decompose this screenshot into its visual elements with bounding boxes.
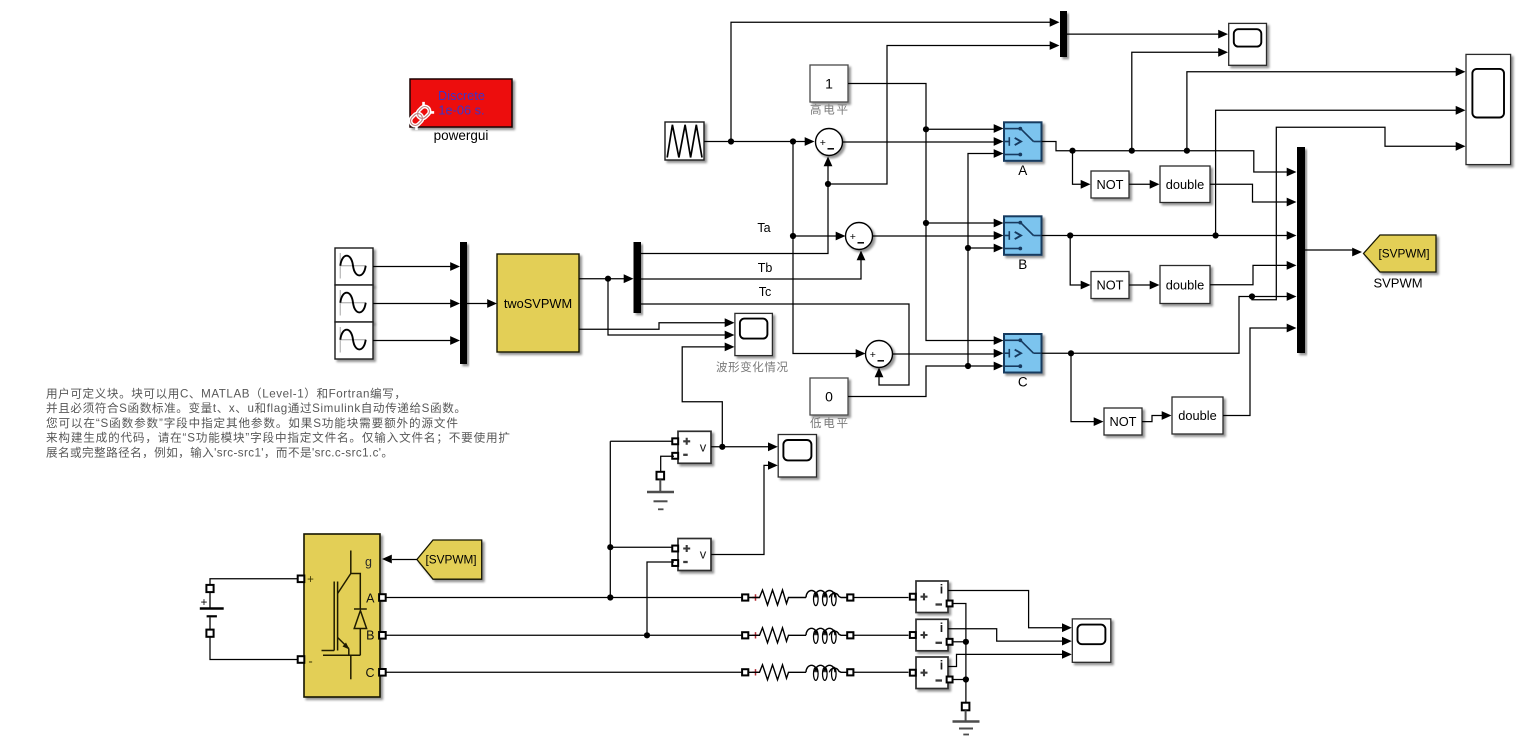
junction twoSVPWM out1 tap: [605, 276, 611, 282]
port i+: [910, 632, 916, 638]
port ground1: [657, 472, 665, 480]
svg-text:NOT: NOT: [1109, 414, 1136, 429]
sum block Sum1 (triangle - Ta): [816, 129, 843, 156]
sine wave source 1: [335, 248, 373, 285]
triangle wave icon: [667, 125, 702, 158]
wire RL3 to I3: [854, 671, 909, 673]
wire V1+ riser: [609, 441, 611, 597]
wire double3 to Mux2 in6: [1223, 328, 1288, 416]
wire mux1 to twoSVPWM: [467, 303, 489, 305]
wire phase B: [386, 634, 742, 636]
wire const0 to Switch B in3: [968, 248, 995, 366]
wire battery- to inverter-: [210, 637, 298, 660]
svg-text:Tb: Tb: [758, 261, 773, 275]
svg-text:powergui: powergui: [434, 128, 489, 143]
port RL2 right: [847, 632, 853, 638]
current measurement block I2: [916, 619, 948, 651]
svg-text:+: +: [201, 597, 208, 609]
junction high level B: [923, 220, 929, 226]
series RL branch 2: [752, 632, 758, 638]
wire Switch B out to Mux2 in3: [1042, 235, 1289, 237]
wire double2 to Mux2 in4: [1210, 265, 1288, 284]
junction I3- node: [963, 676, 969, 682]
wire Sum2 to Switch B in2: [873, 235, 996, 237]
svg-text:低电平: 低电平: [810, 417, 848, 430]
junction riser to V2+: [607, 544, 613, 550]
wire to NOT1: [1073, 151, 1083, 185]
port inverter +: [298, 576, 305, 583]
wire I3 out to scope5 in3: [948, 654, 1064, 666]
inverter IGBT-diode icon: [322, 551, 367, 680]
wire tap to scope Bo Xing in2: [608, 279, 726, 335]
switch block A: [1004, 122, 1042, 161]
svg-text:波形变化情况: 波形变化情况: [716, 360, 789, 374]
junction low level C: [965, 363, 971, 369]
junction triangle tap B: [790, 138, 796, 144]
wire twoSVPWM out2 to scope in1: [579, 323, 726, 330]
wire V2- down to phase B: [647, 562, 674, 635]
ground symbol 1: [647, 480, 674, 510]
ground symbol 2: [953, 710, 980, 734]
port v-: [672, 453, 678, 459]
wire A out to scope1 in2: [1132, 52, 1220, 150]
logic NOT block 3: [1104, 408, 1142, 435]
demux Demux1 (Ta Tb Tc): [634, 242, 642, 313]
arrow scope3 in3: [725, 343, 735, 352]
wire I1- down: [953, 604, 966, 704]
wire demux out3 Tc to Sum3: [641, 304, 909, 385]
wire sine3 to input mux: [373, 340, 452, 342]
svg-text:A: A: [366, 592, 375, 606]
wire I1 out to scope5 in1: [948, 591, 1064, 628]
junction Ta line: [825, 181, 831, 187]
from tag [SVPWM] (gate): [417, 540, 482, 579]
svg-text:[SVPWM]: [SVPWM]: [1378, 247, 1429, 261]
inverter emitter arrow: [343, 643, 350, 650]
wire NOT1 to double1: [1129, 183, 1151, 185]
svg-text:twoSVPWM: twoSVPWM: [504, 296, 572, 311]
sine wave source 3: [335, 322, 373, 359]
switch block B: [1004, 216, 1042, 255]
junction low level B: [965, 245, 971, 251]
wire Sum1 to Switch A in2: [843, 141, 996, 143]
mux Mux1 (3 sine inputs): [460, 242, 467, 364]
scope block 4 (voltages): [778, 435, 816, 478]
sum block Sum2 (triangle - Tb): [846, 223, 873, 250]
junction C out to NOT3: [1068, 350, 1074, 356]
wire A out to scope2 in1: [1187, 72, 1457, 151]
S-function block twoSVPWM: [497, 254, 579, 352]
svg-text:Ta: Ta: [757, 221, 770, 235]
svg-text:您可以在“S函数参数”字段中指定其他参数。如果S功能块需要额: 您可以在“S函数参数”字段中指定其他参数。如果S功能块需要额外的源文件: [46, 416, 458, 430]
svg-text:1e-06 s.: 1e-06 s.: [438, 103, 484, 118]
wire V2 out to scope4 in2: [711, 465, 769, 554]
svg-text:展名或完整路径名，例如，输入'src-src1'，而不是's: 展名或完整路径名，例如，输入'src-src1'，而不是'src.c-src1.…: [46, 446, 393, 460]
wire Switch C out to Mux2 in5: [1042, 297, 1289, 354]
wire const1 to Switch C in1: [926, 223, 995, 341]
wire Sum3 to Switch C in2: [893, 353, 996, 355]
svg-text:i: i: [940, 583, 943, 597]
scope block 2 (3-in): [1466, 54, 1511, 164]
logic NOT block 1: [1091, 171, 1129, 198]
current measurement block I1: [916, 581, 948, 613]
junction A out to scope1: [1129, 148, 1135, 154]
sine wave source 2: [335, 285, 373, 322]
wire demux out1 up to Sum1: [641, 165, 828, 254]
svg-text:i: i: [940, 621, 943, 635]
wire to NOT3: [1071, 353, 1095, 421]
junction phase B tap: [644, 632, 650, 638]
wire NOT3 to double3: [1142, 416, 1163, 422]
wire constant0 to Switch C in3: [848, 366, 995, 397]
svg-text:+: +: [307, 574, 314, 586]
port RL1 right: [847, 594, 853, 600]
svg-text:[SVPWM]: [SVPWM]: [425, 553, 476, 567]
port inverter C: [379, 669, 386, 676]
svg-text:NOT: NOT: [1096, 278, 1123, 293]
data type conversion double 2: [1160, 266, 1210, 304]
sum block Sum3 (triangle - Tc): [866, 341, 893, 368]
wire sine2 to input mux: [373, 303, 452, 305]
scope block 5 (currents): [1072, 619, 1111, 662]
wire RL1 to I1: [854, 597, 909, 599]
port i-: [947, 601, 953, 607]
mux scope1 inputs: [1060, 11, 1067, 57]
wire V1- to ground1: [661, 456, 674, 471]
port RL3 right: [847, 669, 853, 675]
wire phase A: [386, 597, 742, 599]
svg-text:+: +: [820, 137, 826, 149]
wire NOT2 to double2: [1129, 284, 1151, 286]
series RL branch 1: [752, 594, 758, 600]
svg-text:1: 1: [825, 76, 833, 92]
wire I3- to node: [953, 679, 966, 681]
port i-: [947, 677, 953, 683]
wire C out to scope2 in3: [1252, 127, 1457, 299]
junction A out to NOT1: [1069, 148, 1075, 154]
port i+: [910, 594, 916, 600]
svg-text:+: +: [870, 349, 876, 361]
svg-text:Discrete: Discrete: [438, 88, 485, 103]
universal bridge inverter block: [304, 534, 380, 697]
wire triangle to scope mux in1: [731, 22, 1051, 141]
junction V1 out: [719, 444, 725, 450]
wire const0 to Switch A in3: [968, 154, 995, 249]
wire B out to scope2 in2: [1216, 110, 1457, 235]
port inverter B: [379, 632, 386, 639]
current measurement block I3: [916, 657, 948, 689]
svg-text:C: C: [365, 666, 374, 680]
svg-text:B: B: [366, 629, 374, 643]
wire riser to V2+: [610, 546, 673, 548]
scope block 1 (2-in): [1229, 23, 1267, 65]
svg-text:SVPWM: SVPWM: [1373, 276, 1422, 291]
voltage measurement block V1: [678, 431, 711, 463]
port battery -: [206, 630, 213, 637]
wire Switch A out to Mux2 in1: [1042, 142, 1289, 173]
logic NOT block 2: [1091, 272, 1129, 299]
port v-: [672, 560, 678, 566]
port ground2: [962, 703, 970, 711]
svg-text:g: g: [365, 555, 372, 569]
junction B out to scope2: [1213, 232, 1219, 238]
wire triangle to Sum1: [704, 141, 806, 143]
svg-text:Tc: Tc: [759, 285, 772, 299]
port inverter A: [379, 594, 386, 601]
svg-text:C: C: [1018, 375, 1028, 390]
goto tag [SVPWM]: [1364, 235, 1437, 272]
wire battery+ to inverter+: [210, 579, 298, 585]
series RL branch 3: [752, 669, 758, 675]
constant block 0 (di dian ping): [810, 378, 848, 415]
svg-text:double: double: [1166, 177, 1204, 192]
wire I2 out to scope5 in2: [948, 629, 1064, 641]
svg-text:并且必须符合S函数标准。变量t、x、u和flag通过Simu: 并且必须符合S函数标准。变量t、x、u和flag通过Simulink自动传递给S…: [46, 401, 466, 415]
port battery +: [206, 585, 213, 592]
wire V1 out to scope3 in3: [682, 347, 726, 447]
port i+: [910, 670, 916, 676]
svg-text:i: i: [940, 659, 943, 673]
svg-text:来构建生成的代码，请在“S功能模块”字段中指定文件名。仅输入: 来构建生成的代码，请在“S功能模块”字段中指定文件名。仅输入文件名；不要使用扩: [46, 431, 510, 445]
junction A out to scope2: [1184, 148, 1190, 154]
port v+: [672, 546, 678, 552]
wire const1 to Switch B in1: [926, 129, 995, 223]
junction I2- node: [963, 639, 969, 645]
wire phase C: [386, 671, 742, 673]
svg-text:+: +: [850, 231, 856, 243]
powergui chain icon: [406, 102, 434, 130]
data type conversion double 1: [1160, 166, 1210, 203]
junction high level A: [923, 126, 929, 132]
wire phase A to V1+: [610, 440, 673, 442]
wire twoSVPWM out1 to demux: [579, 278, 625, 280]
svg-text:v: v: [700, 547, 707, 562]
svg-text:double: double: [1178, 408, 1216, 423]
wire triangle down to Sum3: [793, 142, 857, 354]
wire to NOT2: [1070, 236, 1082, 286]
repeating sequence (triangle) source: [665, 122, 704, 160]
voltage measurement block V2: [678, 539, 711, 571]
port i-: [947, 639, 953, 645]
svg-text:B: B: [1018, 257, 1027, 272]
scope block Bo Xing Bian Hua Qing Kuang: [735, 313, 773, 355]
port RL3 left: [742, 669, 748, 675]
constant block 1 (gao dian ping): [810, 65, 848, 102]
svg-text:A: A: [1018, 163, 1027, 178]
svg-text:-: -: [308, 654, 312, 669]
svg-text:用户可定义块。块可以用C、MATLAB（Level-1）和F: 用户可定义块。块可以用C、MATLAB（Level-1）和Fortran编写，: [46, 386, 406, 400]
port RL2 left: [742, 632, 748, 638]
wire V1 out to scope4 in1: [711, 446, 769, 448]
svg-text:NOT: NOT: [1096, 177, 1123, 192]
port RL1 left: [742, 594, 748, 600]
wire RL2 to I2: [854, 634, 909, 636]
powergui block: [410, 79, 512, 127]
wire I2- to node: [953, 641, 966, 643]
wire from-tag to gate g: [392, 559, 417, 561]
mux Mux2 (6 PWM signals): [1297, 147, 1305, 353]
junction B out to NOT2: [1067, 232, 1073, 238]
svg-text:v: v: [700, 439, 707, 454]
svg-text:double: double: [1166, 278, 1204, 293]
junction triangle tap A: [728, 138, 734, 144]
junction triangle to Sum2: [790, 233, 796, 239]
wire const1 to Switch A in1: [848, 84, 995, 130]
wire double1 to Mux2 in2: [1210, 184, 1288, 202]
port inverter -: [298, 656, 305, 663]
svg-text:0: 0: [825, 389, 833, 405]
junction C out to scope2: [1249, 293, 1255, 299]
wire sine1 to input mux: [373, 266, 452, 268]
junction phase A tap: [607, 594, 613, 600]
wire Mux2 to goto SVPWM: [1305, 249, 1353, 251]
wire Ta to scope mux in2: [828, 46, 1051, 185]
svg-text:高电平: 高电平: [810, 103, 848, 117]
port v+: [672, 438, 678, 444]
data type conversion double 3: [1172, 397, 1223, 434]
switch block C: [1004, 334, 1042, 373]
wire demux out2 Tb to Sum2: [641, 259, 861, 279]
wire triangle to Sum2: [793, 235, 837, 237]
wire mux to scope1 in1: [1067, 33, 1220, 35]
